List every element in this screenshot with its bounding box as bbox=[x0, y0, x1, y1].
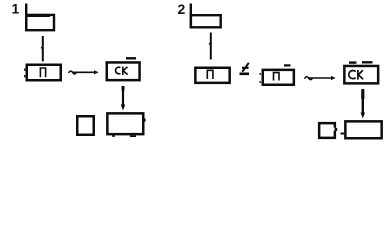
svg-text:2: 2 bbox=[178, 1, 186, 17]
svg-text:1: 1 bbox=[12, 1, 20, 17]
